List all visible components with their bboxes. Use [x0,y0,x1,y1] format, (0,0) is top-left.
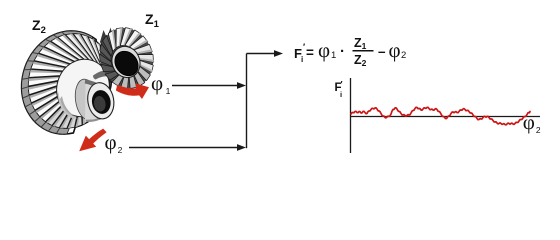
mesh shadow between gears [100,28,117,52]
gear Z2 silhouette [22,31,112,134]
red arrow phi2 [79,129,106,152]
pinion teeth [137,55,154,63]
gear Z2 rim notches [22,32,65,133]
red arrow phi1 [116,83,149,99]
formula minus [378,44,386,59]
wire junction vertical [246,54,248,149]
connector wires [129,54,276,149]
formula phi2 [389,38,401,63]
pinion face ring [108,42,145,81]
gear Z2 [22,31,117,134]
label Z2 [32,17,46,36]
formula Z1 numerator [354,36,366,51]
pinion bore [110,47,143,81]
gear Z2 hub base [73,78,100,122]
gear Z2 bore [90,89,112,116]
wire phi1 to junction [172,85,240,87]
label phi2 rotation [105,130,123,155]
arrowhead phi2 wire [237,144,246,151]
arrowhead phi1 wire [237,82,246,89]
gear Z2 teeth [107,76,112,99]
formula equals [306,45,314,60]
gear Z2 web [49,52,116,123]
arrowhead to formula [274,50,283,57]
gear Z2 rim band [22,31,93,134]
gear Z2 bore inner wall [93,95,107,112]
gear Z2 hub bottom band [86,116,103,122]
graph label F axis [335,82,342,94]
wire junction to formula [247,53,277,55]
pinion tooth gap annulus [100,28,153,88]
axis horizontal [350,116,540,118]
gear Z2 hub top band [85,79,103,92]
pinion shadow above hub [93,70,115,80]
label Z1 [145,11,159,30]
gear Z2 hub front face [85,81,117,121]
graph label phi2 axis [523,110,541,135]
formula phi1 [318,38,330,63]
fraction bar [353,50,374,52]
label phi1 rotation [151,71,170,96]
formula F term [294,46,302,61]
formula dot [340,43,345,60]
gear Z2 hub cylinder body [85,80,103,120]
gear Z2 tooth gap annulus [29,34,112,128]
gear Z2 web shading [58,92,77,119]
formula Z2 denominator [354,53,366,68]
red noisy curve [351,107,530,125]
pinion Z1 crown [100,28,154,89]
axis vertical [350,78,352,153]
wire phi2 to junction [129,147,240,149]
